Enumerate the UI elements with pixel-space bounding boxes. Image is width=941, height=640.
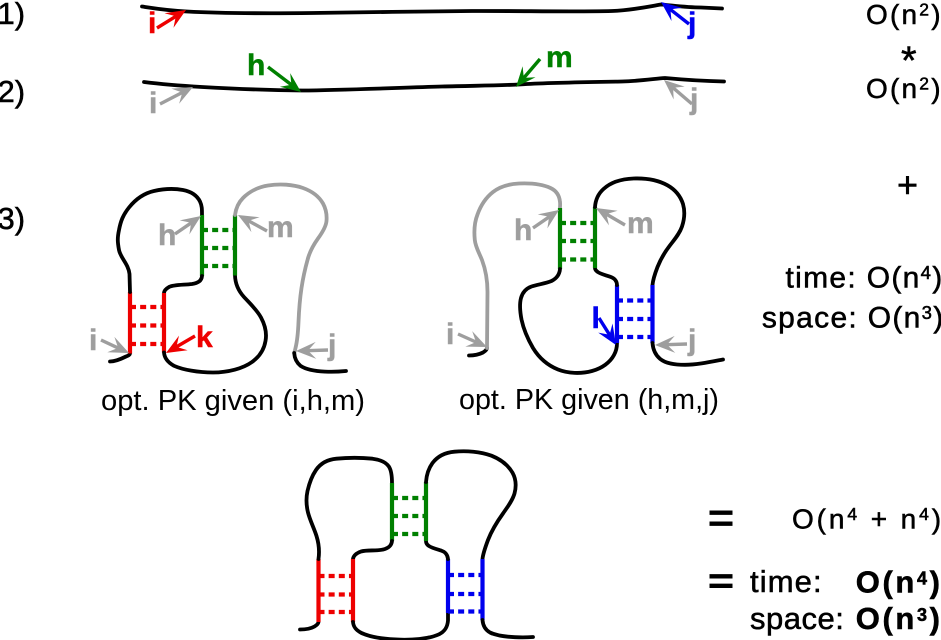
equals sign 1 [710, 513, 733, 524]
svg-text:i: i [148, 7, 156, 40]
left blob: red helix left rail [128, 292, 132, 354]
right blob: black 5-prime tail [469, 348, 487, 356]
bottom structure: blue helix left rail [446, 559, 450, 613]
bottom structure: blue helix right rail [480, 559, 484, 620]
arrow i (row2) [160, 87, 193, 104]
arrow m (row2) [516, 59, 540, 87]
svg-text:O(n2): O(n2) [866, 0, 941, 30]
wavy strand line 2 [144, 78, 724, 91]
equals sign 2 [710, 576, 733, 586]
bottom structure: red helix right rail [351, 559, 355, 622]
right blob arrow m [596, 208, 625, 225]
left blob: green base-pair rungs [202, 230, 235, 266]
svg-text:i: i [149, 87, 157, 120]
left blob: black left loop [118, 189, 202, 292]
left blob: black neck green to red [164, 276, 202, 293]
left blob: red helix right rail [162, 293, 166, 353]
right blob arrow j [655, 336, 687, 353]
svg-text:h: h [247, 49, 265, 82]
right blob: gray left loop (i..h part) [474, 183, 560, 348]
bottom structure: red helix left rail [316, 559, 320, 622]
svg-text:1): 1) [0, 0, 25, 31]
svg-text:j: j [687, 324, 696, 357]
right blob: black 3-prime tail [653, 343, 724, 365]
svg-text:i: i [89, 324, 97, 357]
right blob: green helix right rail [593, 207, 597, 268]
svg-text:3): 3) [0, 201, 25, 236]
left blob arrow k [166, 336, 195, 353]
svg-text:i: i [446, 318, 454, 351]
svg-text:time:: time: [750, 564, 823, 599]
left blob: black bottom loop [164, 276, 266, 373]
right blob: black right loop [595, 178, 684, 285]
left blob: black 5-prime tail [110, 354, 130, 362]
right blob: black bottom loop [520, 269, 617, 373]
svg-text:k: k [196, 321, 213, 354]
left blob arrow j [296, 342, 328, 359]
svg-text:+: + [897, 164, 918, 205]
svg-text:space:: space: [750, 601, 844, 636]
svg-text:opt. PK given (h,m,j): opt. PK given (h,m,j) [459, 384, 719, 416]
left blob: red base-pair rungs [130, 307, 164, 344]
arrow j (row2) [664, 80, 692, 104]
left blob arrow i [101, 337, 129, 353]
bottom structure: green base-pair rungs [392, 498, 426, 534]
arrow i (row1) [157, 10, 186, 28]
svg-text:j: j [327, 329, 336, 362]
svg-text:l: l [592, 302, 600, 335]
left blob: black 3-prime tail [294, 353, 346, 372]
bottom structure: black bottom loop [353, 613, 448, 640]
svg-text:time: O(n4): time: O(n4) [786, 262, 941, 295]
svg-text:O(n2): O(n2) [866, 73, 941, 104]
right blob: black neck blue to green [595, 268, 617, 285]
left blob arrow h [175, 216, 201, 234]
right blob arrow l [598, 318, 616, 345]
svg-text:j: j [687, 7, 696, 40]
right blob: green helix left rail [558, 208, 562, 269]
bottom structure: black neck green-left to red-right [353, 541, 392, 559]
bottom structure: black neck blue-left to green-right [426, 541, 448, 559]
right blob arrow i [458, 331, 487, 347]
bottom structure: black right loop [426, 451, 516, 559]
right blob: blue helix left rail [615, 285, 619, 343]
svg-text:2): 2) [0, 74, 25, 109]
svg-text:h: h [158, 219, 176, 252]
svg-text:opt. PK given (i,h,m): opt. PK given (i,h,m) [101, 385, 365, 417]
svg-text:m: m [546, 41, 573, 74]
bottom structure: red base-pair rungs [319, 576, 354, 612]
arrow j (row1) [661, 2, 689, 24]
left blob: green helix left rail [200, 215, 204, 276]
right blob: green base-pair rungs [560, 223, 595, 260]
svg-text:O(n3): O(n3) [856, 601, 941, 636]
bottom structure: green helix right rail [424, 482, 428, 541]
right blob: blue base-pair rungs [617, 301, 653, 338]
svg-text:O(n4 + n4): O(n4 + n4) [792, 504, 941, 535]
left blob arrow m [238, 215, 267, 232]
svg-text:O(n4): O(n4) [856, 565, 941, 600]
svg-text:m: m [267, 211, 294, 244]
right blob arrow h [533, 210, 559, 228]
arrow h (row2) [268, 67, 301, 92]
svg-text:j: j [689, 83, 698, 116]
right blob: blue helix right rail [650, 285, 654, 343]
bottom structure: green helix left rail [390, 483, 394, 541]
bottom structure: black 5-prime tail [300, 622, 319, 630]
bottom structure: black left loop [306, 458, 392, 559]
left blob: green helix right rail [233, 215, 237, 276]
wavy strand line 1 [142, 5, 722, 14]
svg-text:space: O(n3): space: O(n3) [762, 302, 941, 335]
bottom structure: blue base-pair rungs [448, 575, 483, 612]
bottom structure: black 3-prime tail [483, 620, 534, 637]
left blob: gray right loop (m..j part) [235, 184, 327, 353]
svg-text:h: h [514, 214, 532, 247]
svg-text:m: m [627, 207, 654, 240]
